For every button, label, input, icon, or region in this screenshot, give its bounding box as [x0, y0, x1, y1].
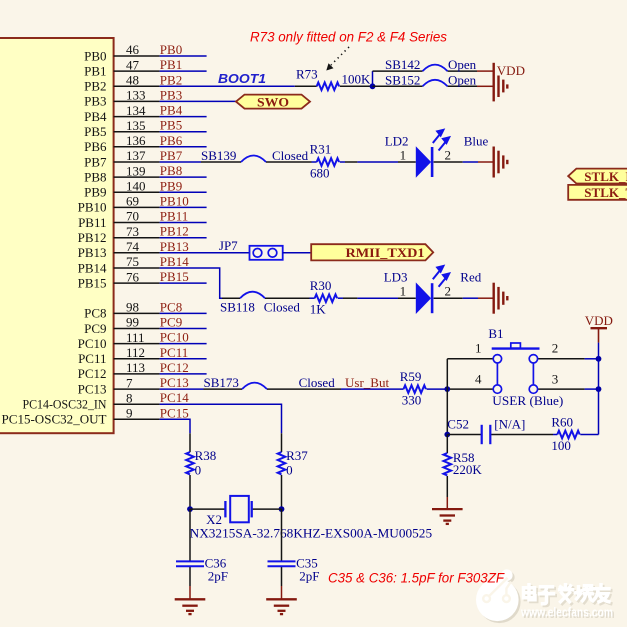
svg-text:99: 99 — [126, 315, 139, 330]
wire PB3 to SWO port — [160, 100, 236, 102]
resistor R60 — [557, 431, 579, 439]
pin 112 PC11 — [114, 358, 160, 360]
svg-text:C52: C52 — [447, 417, 469, 432]
power wire to ground — [189, 586, 191, 599]
resistor R58 leads — [446, 435, 448, 454]
svg-text:9: 9 — [126, 406, 133, 421]
svg-text:R38: R38 — [195, 448, 217, 463]
solder bridge SB118 pins — [222, 297, 240, 299]
svg-text:70: 70 — [126, 209, 139, 224]
resistor R73 — [317, 83, 339, 91]
svg-text:PB15: PB15 — [160, 269, 189, 284]
svg-text:330: 330 — [402, 393, 422, 408]
svg-text:RMII_TXD1: RMII_TXD1 — [346, 245, 425, 260]
wire stub net PB10 — [160, 206, 207, 208]
resistor R73 pins — [295, 85, 317, 87]
watermark char 3 — [560, 585, 573, 602]
svg-text:1: 1 — [400, 147, 407, 162]
svg-text:100K: 100K — [342, 71, 372, 86]
resistor R60 leads — [553, 434, 557, 436]
svg-text:PC13: PC13 — [160, 375, 189, 390]
button B1 — [492, 343, 540, 393]
svg-text:PB7: PB7 — [84, 154, 107, 169]
svg-text:Open: Open — [448, 72, 477, 87]
wire stub net PB15 — [160, 282, 207, 284]
power wire SB152 to VDD — [477, 85, 493, 87]
svg-text:JP7: JP7 — [219, 238, 238, 253]
svg-text:137: 137 — [126, 148, 146, 163]
watermark char 2 — [540, 587, 554, 604]
svg-text:PC11: PC11 — [78, 351, 106, 366]
pin 139 PB8 — [114, 176, 160, 178]
svg-text:PC8: PC8 — [84, 306, 106, 321]
svg-text:NX3215SA-32.768KHZ-EXS00A-MU00: NX3215SA-32.768KHZ-EXS00A-MU00525 — [190, 525, 433, 540]
svg-text:PB14: PB14 — [160, 254, 189, 269]
watermark chinese text — [524, 585, 611, 606]
svg-text:Blue: Blue — [464, 134, 489, 149]
svg-text:PB5: PB5 — [84, 124, 106, 139]
pin 134 PB4 — [114, 116, 160, 118]
pin 98 PC8 — [114, 312, 160, 314]
svg-text:76: 76 — [126, 269, 140, 284]
svg-text:PC14: PC14 — [160, 390, 189, 405]
wire junction up to button pin1 row — [446, 359, 448, 389]
watermark char 5 — [593, 585, 609, 602]
svg-text:113: 113 — [126, 360, 145, 375]
svg-text:Red: Red — [460, 270, 481, 285]
svg-text:PC10: PC10 — [160, 330, 189, 345]
svg-text:PB6: PB6 — [84, 139, 107, 154]
svg-text:PB3: PB3 — [160, 87, 182, 102]
watermark char 2 shadow — [541, 589, 555, 606]
port SWO — [236, 95, 310, 109]
svg-text:47: 47 — [126, 57, 140, 72]
power VDD (top right) — [591, 327, 608, 329]
svg-text:SB139: SB139 — [201, 148, 236, 163]
wire to button pin 1 — [447, 358, 493, 360]
svg-text:PC15: PC15 — [160, 405, 189, 420]
svg-text:100: 100 — [551, 438, 571, 453]
pin 137 PB7 — [114, 161, 160, 163]
wire stub net PC9 — [160, 328, 207, 330]
svg-text:1: 1 — [475, 341, 482, 356]
svg-text:SB152: SB152 — [385, 72, 420, 87]
svg-text:111: 111 — [126, 330, 145, 345]
svg-text:PC12: PC12 — [160, 360, 189, 375]
power wire SB142 to VDD — [477, 70, 493, 72]
capacitor C35 pins — [281, 509, 283, 561]
wire stub net PC10 — [160, 343, 207, 345]
pin 73 PB12 — [114, 237, 160, 239]
solder bridge SB142 pins — [373, 70, 423, 72]
capacitor C36 pins — [189, 509, 191, 561]
power bar (LD3 anode supply) — [494, 283, 508, 314]
svg-text:PB2: PB2 — [84, 79, 106, 94]
svg-text:PB15: PB15 — [78, 275, 107, 290]
svg-text:112: 112 — [126, 345, 145, 360]
svg-text:Closed: Closed — [299, 375, 336, 390]
wire stub net PB4 — [160, 116, 207, 118]
svg-text:PB1: PB1 — [160, 57, 182, 72]
svg-text:0: 0 — [286, 462, 293, 477]
wire to button pin 4 — [450, 388, 493, 390]
wire R59 to junction — [427, 388, 448, 390]
svg-text:98: 98 — [126, 300, 139, 315]
pin 74 PB13 — [114, 252, 160, 254]
ground (C36) — [175, 599, 206, 614]
pin 8 PC14-OSC32_IN — [114, 403, 160, 405]
solder bridge SB142 arc — [423, 65, 448, 72]
pin 47 PB1 — [114, 70, 160, 72]
junction node XTAL left — [187, 506, 193, 512]
svg-text:4: 4 — [475, 371, 482, 386]
svg-text:PB7: PB7 — [160, 148, 183, 163]
svg-text:LD3: LD3 — [384, 270, 408, 285]
LED LD3 pin 1 — [398, 297, 416, 299]
wire stub net PB9 — [160, 191, 207, 193]
svg-text:SB173: SB173 — [204, 375, 239, 390]
wire button pin 2 to VDD rail — [538, 358, 585, 360]
LED LD2 pin 2 — [434, 161, 463, 163]
svg-text:PB9: PB9 — [84, 185, 106, 200]
svg-text:PB0: PB0 — [160, 42, 182, 57]
svg-text:0: 0 — [195, 462, 202, 477]
svg-text:R30: R30 — [310, 278, 332, 293]
pin 70 PB11 — [114, 222, 160, 224]
svg-text:PB6: PB6 — [160, 133, 183, 148]
svg-text:PB11: PB11 — [78, 215, 106, 230]
resistor R38 — [186, 452, 194, 474]
svg-text:PB12: PB12 — [78, 230, 107, 245]
solder bridge SB152 arc — [423, 80, 448, 87]
resistor R37 — [278, 452, 286, 474]
svg-text:48: 48 — [126, 73, 139, 88]
LED LD3 — [416, 266, 449, 314]
wire stub net PB12 — [160, 237, 207, 239]
solder bridge SB173 pins — [204, 388, 243, 390]
svg-text:74: 74 — [126, 239, 140, 254]
VDD rail down right side — [598, 343, 600, 359]
watermark char 5 shadow — [595, 587, 611, 604]
resistor R59 — [404, 385, 426, 393]
svg-text:2: 2 — [445, 147, 452, 162]
svg-text:Closed: Closed — [272, 148, 309, 163]
port RMII_TXD1 — [311, 244, 433, 260]
wire PC13 to SB173 — [160, 388, 204, 390]
svg-text:PC11: PC11 — [160, 345, 188, 360]
svg-text:PB13: PB13 — [160, 239, 189, 254]
svg-text:STLK_RX: STLK_RX — [584, 169, 627, 184]
solder bridge SB173 arc — [242, 383, 267, 390]
wire stub net PC11 — [160, 358, 207, 360]
pin 113 PC12 — [114, 373, 160, 375]
svg-text:R31: R31 — [310, 142, 332, 157]
svg-text:R73: R73 — [296, 66, 318, 81]
wire LD3 to power — [463, 297, 478, 299]
pin 99 PC9 — [114, 328, 160, 330]
resistor R31 — [317, 158, 339, 166]
svg-text:STLK_TX: STLK_TX — [584, 185, 627, 200]
watermark logo elecfans — [476, 569, 521, 623]
svg-text:PB1: PB1 — [84, 63, 106, 78]
watermark char 3 shadow — [561, 587, 574, 604]
solder bridge SB139 pins — [201, 161, 241, 163]
svg-text:PB9: PB9 — [160, 178, 182, 193]
svg-text:R73 only fitted on F2 & F4 Ser: R73 only fitted on F2 & F4 Series — [250, 30, 447, 45]
svg-text:R60: R60 — [551, 414, 573, 429]
svg-text:46: 46 — [126, 42, 140, 57]
watermark char 4 — [576, 586, 593, 601]
capacitor C52 pins — [447, 434, 481, 436]
wire PB13 to JP7 — [160, 252, 250, 254]
svg-text:VDD: VDD — [497, 63, 525, 78]
svg-text:VDD: VDD — [585, 313, 613, 328]
svg-text:135: 135 — [126, 118, 146, 133]
wire PC15 right and down — [160, 419, 190, 433]
pin 75 PB14 — [114, 267, 160, 269]
pin 7 PC13 — [114, 388, 160, 390]
svg-text:Closed: Closed — [264, 299, 301, 314]
svg-text:PC15-OSC32_OUT: PC15-OSC32_OUT — [2, 412, 107, 427]
pin 76 PB15 — [114, 282, 160, 284]
solder bridge SB152 pins — [373, 85, 423, 87]
wire PB7 to SB139 — [160, 161, 201, 163]
svg-text:1K: 1K — [310, 302, 327, 317]
wire with net label Usr_But — [341, 388, 404, 390]
pin 133 PB3 — [114, 100, 160, 102]
wire PC14 right and down — [160, 404, 282, 433]
pin 46 PB0 — [114, 55, 160, 57]
wire stub net PC12 — [160, 373, 207, 375]
resistor R30 — [315, 294, 337, 302]
svg-text:SB142: SB142 — [385, 57, 420, 72]
svg-text:PB11: PB11 — [160, 209, 188, 224]
pin 135 PB5 — [114, 131, 160, 133]
port STLK_TX — [568, 185, 627, 200]
svg-text:BOOT1: BOOT1 — [218, 71, 266, 86]
resistor R38 leads — [189, 433, 191, 452]
wire PB2 to R73 — [160, 85, 295, 87]
svg-text:1: 1 — [400, 284, 407, 299]
svg-text:PB8: PB8 — [160, 163, 182, 178]
resistor R31 leads — [312, 161, 317, 163]
wire stub net PB5 — [160, 131, 207, 133]
pin 140 PB9 — [114, 191, 160, 193]
junction nodes on VDD rail — [596, 356, 602, 362]
svg-text:2pF: 2pF — [208, 568, 228, 583]
wire junction up to SB142 row — [372, 71, 374, 86]
svg-text:R59: R59 — [400, 369, 422, 384]
power bar (LD2 anode supply) — [494, 147, 508, 178]
svg-text:PB13: PB13 — [78, 245, 107, 260]
wire R30 to LD3 — [357, 297, 398, 299]
power VDD (top, bar style) — [494, 63, 508, 102]
svg-text:PB0: PB0 — [84, 48, 106, 63]
ground (C35) — [266, 599, 297, 614]
resistor R30 leads — [310, 297, 315, 299]
svg-text:LD2: LD2 — [385, 134, 409, 149]
wire JP7 to port — [283, 252, 312, 254]
power wire to ground — [281, 586, 283, 599]
svg-text:PB4: PB4 — [160, 103, 183, 118]
svg-text:PB5: PB5 — [160, 118, 182, 133]
watermark char 4 shadow — [577, 588, 594, 603]
svg-text:PC12: PC12 — [78, 366, 107, 381]
svg-text:[N/A]: [N/A] — [494, 417, 525, 432]
wire stub net PB6 — [160, 146, 207, 148]
wire stub net PB11 — [160, 222, 207, 224]
solder bridge SB118 arc — [240, 292, 265, 299]
svg-text:140: 140 — [126, 179, 146, 194]
svg-text:PB10: PB10 — [160, 193, 189, 208]
wire stub net PB1 — [160, 70, 207, 72]
capacitor C52 — [482, 425, 491, 444]
svg-text:SWO: SWO — [257, 94, 289, 109]
resistor R58 — [444, 453, 452, 475]
jumper JP7 — [250, 246, 283, 260]
svg-text:SB118: SB118 — [220, 299, 255, 314]
svg-text:PC9: PC9 — [84, 321, 106, 336]
svg-text:PB8: PB8 — [84, 169, 106, 184]
junction node XTAL right — [279, 506, 285, 512]
junction node C52/R58 — [444, 432, 450, 438]
capacitor C36 — [176, 561, 204, 566]
watermark char 1 — [524, 585, 536, 600]
svg-text:8: 8 — [126, 390, 133, 405]
svg-text:Usr_But: Usr_But — [345, 375, 389, 390]
svg-text:C35 & C36: 1.5pF for F303ZF: C35 & C36: 1.5pF for F303ZF — [328, 570, 505, 585]
LED LD3 pin 2 — [434, 297, 463, 299]
svg-text:69: 69 — [126, 194, 139, 209]
svg-text:PC10: PC10 — [78, 336, 107, 351]
svg-text:75: 75 — [126, 254, 139, 269]
svg-text:PC13: PC13 — [78, 381, 107, 396]
pin 9 PC15-OSC32_OUT — [114, 418, 160, 420]
svg-text:136: 136 — [126, 133, 146, 148]
svg-text:2: 2 — [552, 341, 559, 356]
watermark char 1 shadow — [525, 587, 537, 602]
svg-text:B1: B1 — [488, 326, 503, 341]
crystal X2 — [225, 496, 251, 522]
wire stub net PB0 — [160, 55, 207, 57]
svg-text:3: 3 — [552, 371, 559, 386]
junction node PC13/button — [444, 386, 450, 392]
LED LD2 — [416, 130, 449, 178]
wire junction down to C52 row — [446, 389, 448, 434]
svg-text:2pF: 2pF — [299, 568, 319, 583]
pin 111 PC10 — [114, 343, 160, 345]
junction node PB2/SB152/SB142 — [370, 83, 376, 89]
svg-text:PC9: PC9 — [160, 315, 182, 330]
wire R31 to LD2 — [357, 161, 398, 163]
svg-text:www.elecfans.com: www.elecfans.com — [520, 605, 613, 620]
svg-text:PB4: PB4 — [84, 109, 107, 124]
pin 69 PB10 — [114, 206, 160, 208]
port STLK_RX — [568, 169, 627, 184]
svg-text:680: 680 — [310, 166, 330, 181]
resistor R37 leads — [281, 433, 283, 452]
ground (R58) — [432, 509, 463, 524]
wire button pin 3 to VDD rail — [538, 388, 585, 390]
svg-text:7: 7 — [126, 375, 133, 390]
dotted arrow to R73 — [326, 47, 349, 71]
svg-text:Open: Open — [448, 57, 477, 72]
pin 136 PB6 — [114, 146, 160, 148]
pin 48 PB2 — [114, 85, 160, 87]
svg-text:PB10: PB10 — [78, 200, 107, 215]
crystal X2 pins — [190, 508, 225, 510]
wire PB14 down to SB118 — [160, 268, 222, 298]
wire stub net PC8 — [160, 312, 207, 314]
capacitor C35 — [268, 561, 296, 566]
LED LD2 pin 1 — [398, 161, 416, 163]
wire stub net PB8 — [160, 176, 207, 178]
solder bridge SB139 arc — [241, 156, 266, 163]
power wire to ground — [446, 497, 448, 509]
svg-text:PB14: PB14 — [78, 260, 107, 275]
svg-text:R37: R37 — [286, 448, 308, 463]
svg-text:PC14-OSC32_IN: PC14-OSC32_IN — [23, 397, 108, 412]
svg-text:PC8: PC8 — [160, 299, 182, 314]
svg-text:133: 133 — [126, 88, 146, 103]
svg-text:134: 134 — [126, 103, 146, 118]
IC U-block outline — [0, 38, 114, 433]
svg-text:2: 2 — [445, 284, 452, 299]
svg-text:73: 73 — [126, 224, 139, 239]
svg-text:PB3: PB3 — [84, 94, 106, 109]
svg-text:139: 139 — [126, 163, 146, 178]
svg-text:PB12: PB12 — [160, 224, 189, 239]
wire LD2 to power — [463, 161, 478, 163]
svg-text:USER (Blue): USER (Blue) — [492, 393, 563, 408]
svg-text:220K: 220K — [453, 462, 483, 477]
svg-text:PB2: PB2 — [160, 72, 182, 87]
